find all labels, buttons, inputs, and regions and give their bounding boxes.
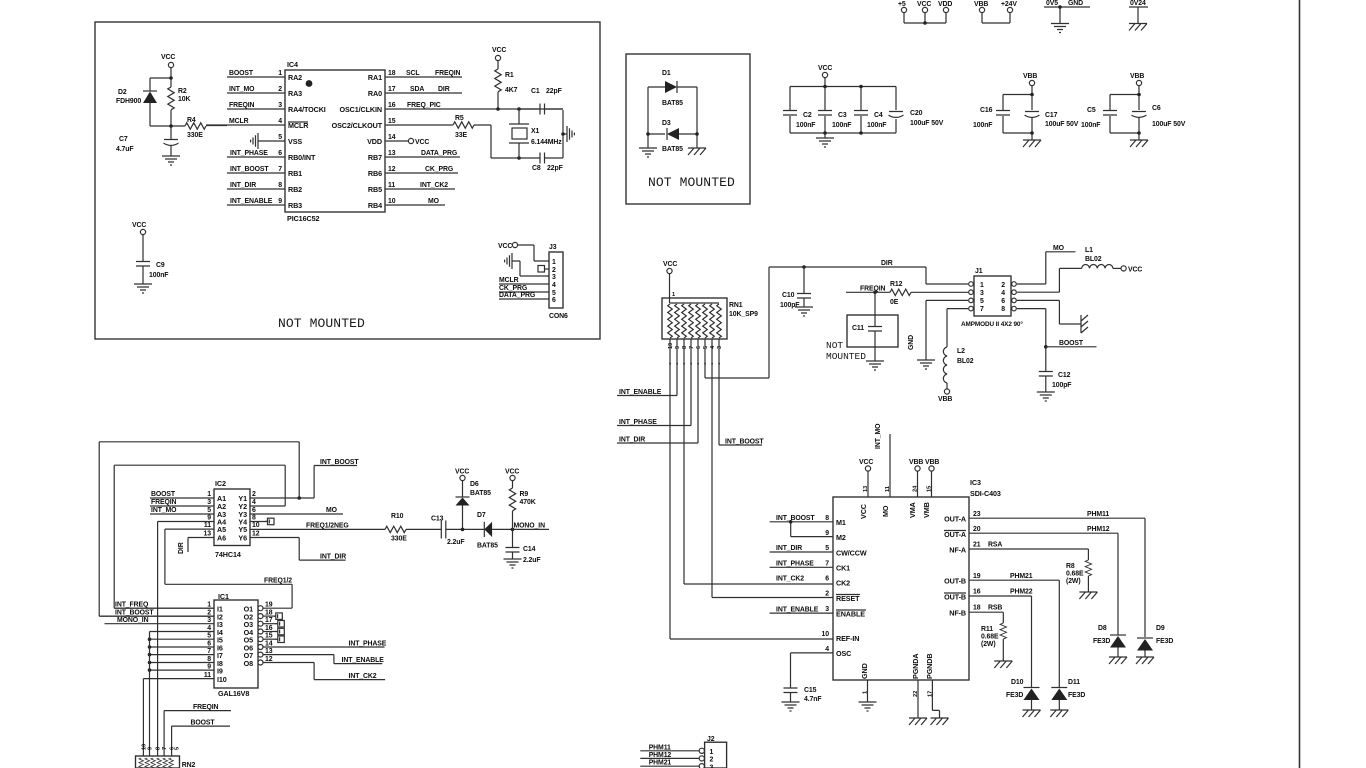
svg-text:8: 8 xyxy=(1001,306,1005,313)
svg-text:470K: 470K xyxy=(520,499,536,506)
svg-text:RA0: RA0 xyxy=(368,89,382,98)
svg-text:VMB: VMB xyxy=(922,502,931,518)
svg-text:12: 12 xyxy=(388,166,396,173)
svg-text:INT_BOOST: INT_BOOST xyxy=(725,439,764,446)
svg-text:IC4: IC4 xyxy=(287,60,298,69)
svg-text:M1: M1 xyxy=(836,518,846,527)
svg-text:O8: O8 xyxy=(244,659,253,668)
svg-text:12: 12 xyxy=(252,531,260,538)
svg-text:RA3: RA3 xyxy=(288,89,302,98)
svg-text:R5: R5 xyxy=(455,115,464,122)
svg-text:2: 2 xyxy=(825,591,829,598)
svg-text:GAL16V8: GAL16V8 xyxy=(218,689,249,698)
svg-text:GND: GND xyxy=(908,335,915,350)
svg-text:BOOST: BOOST xyxy=(151,491,176,498)
svg-text:BAT85: BAT85 xyxy=(662,100,683,107)
svg-text:7: 7 xyxy=(278,166,282,173)
svg-text:RA2: RA2 xyxy=(288,73,302,82)
svg-text:FE3D: FE3D xyxy=(1068,692,1085,699)
svg-text:D10: D10 xyxy=(1011,679,1024,686)
svg-text:C8: C8 xyxy=(532,165,541,172)
svg-text:OUT-B: OUT-B xyxy=(944,593,966,602)
svg-text:0.68E: 0.68E xyxy=(981,634,999,641)
svg-text:RSA: RSA xyxy=(988,542,1002,549)
svg-text:3: 3 xyxy=(825,606,829,613)
svg-text:BL02: BL02 xyxy=(957,358,974,365)
svg-text:VCC: VCC xyxy=(859,504,868,519)
svg-text:RESET: RESET xyxy=(836,594,860,603)
svg-text:VBB: VBB xyxy=(909,459,923,466)
svg-text:13: 13 xyxy=(265,648,273,655)
svg-text:C10: C10 xyxy=(782,292,795,299)
svg-text:100nF: 100nF xyxy=(832,122,851,129)
svg-text:4.7uF: 4.7uF xyxy=(116,146,134,153)
svg-text:0V5: 0V5 xyxy=(1046,0,1058,7)
svg-text:22pF: 22pF xyxy=(546,88,562,95)
svg-text:MO: MO xyxy=(1053,245,1065,252)
svg-text:INT_DIR: INT_DIR xyxy=(230,182,256,189)
svg-text:MO: MO xyxy=(326,507,338,514)
svg-text:MONO_IN: MONO_IN xyxy=(117,617,149,624)
svg-text:19: 19 xyxy=(973,573,981,580)
svg-text:8: 8 xyxy=(207,656,211,663)
svg-text:5: 5 xyxy=(552,290,556,297)
svg-text:6: 6 xyxy=(825,576,829,583)
svg-text:VCC: VCC xyxy=(455,469,469,476)
svg-text:FREQIN: FREQIN xyxy=(860,286,886,293)
svg-text:100uF 50V: 100uF 50V xyxy=(910,120,944,127)
svg-text:DIR: DIR xyxy=(438,86,450,93)
svg-text:330E: 330E xyxy=(187,132,203,139)
svg-text:15: 15 xyxy=(388,118,396,125)
svg-text:9: 9 xyxy=(825,530,829,537)
svg-text:4K7: 4K7 xyxy=(505,87,518,94)
svg-text:VCC: VCC xyxy=(498,243,512,250)
svg-text:10: 10 xyxy=(822,631,830,638)
svg-text:33E: 33E xyxy=(455,132,467,139)
svg-text:1: 1 xyxy=(672,292,675,298)
svg-text:5: 5 xyxy=(175,747,181,750)
svg-text:9: 9 xyxy=(207,515,211,522)
svg-text:RB6: RB6 xyxy=(368,169,382,178)
svg-text:VDD: VDD xyxy=(367,137,382,146)
svg-text:INT_ENABLE: INT_ENABLE xyxy=(230,198,273,205)
svg-text:6.144MHz: 6.144MHz xyxy=(531,139,562,146)
svg-text:INT_BOOST: INT_BOOST xyxy=(115,610,154,617)
svg-text:330E: 330E xyxy=(391,536,407,543)
svg-text:C9: C9 xyxy=(156,262,165,269)
svg-text:D2: D2 xyxy=(118,89,127,96)
svg-text:(2W): (2W) xyxy=(1066,578,1081,585)
svg-text:11: 11 xyxy=(885,486,891,492)
svg-text:INT_DIR: INT_DIR xyxy=(776,545,802,552)
svg-text:VSS: VSS xyxy=(288,137,302,146)
svg-text:VBB: VBB xyxy=(938,396,952,403)
svg-text:21: 21 xyxy=(973,542,981,549)
svg-text:MO: MO xyxy=(428,198,440,205)
svg-text:I10: I10 xyxy=(217,675,227,684)
svg-text:INT_PHASE: INT_PHASE xyxy=(619,419,657,426)
svg-text:4: 4 xyxy=(278,118,282,125)
svg-text:DATA_PRG: DATA_PRG xyxy=(421,150,457,157)
svg-text:RB0/INT: RB0/INT xyxy=(288,153,316,162)
svg-text:17: 17 xyxy=(388,86,396,93)
svg-text:10K_SP9: 10K_SP9 xyxy=(729,311,758,318)
svg-text:1: 1 xyxy=(207,602,211,609)
svg-text:CK1: CK1 xyxy=(836,564,850,573)
svg-text:22: 22 xyxy=(913,691,919,697)
svg-text:13: 13 xyxy=(863,486,869,492)
svg-text:74HC14: 74HC14 xyxy=(215,550,241,559)
svg-text:INT_ENABLE: INT_ENABLE xyxy=(342,657,385,664)
svg-text:C16: C16 xyxy=(980,107,993,114)
svg-text:FREQIN: FREQIN xyxy=(193,704,219,711)
svg-text:2: 2 xyxy=(278,86,282,93)
svg-text:PGNDA: PGNDA xyxy=(911,654,920,679)
svg-text:RA4/TOCKI: RA4/TOCKI xyxy=(288,105,326,114)
svg-text:8: 8 xyxy=(252,515,256,522)
svg-text:J2: J2 xyxy=(707,736,715,743)
svg-text:(2W): (2W) xyxy=(981,641,996,648)
svg-text:1: 1 xyxy=(207,491,211,498)
svg-text:2: 2 xyxy=(207,610,211,617)
svg-text:17: 17 xyxy=(928,691,934,697)
svg-text:23: 23 xyxy=(973,511,981,518)
svg-text:R12: R12 xyxy=(890,281,903,288)
svg-text:C7: C7 xyxy=(119,136,128,143)
svg-text:2: 2 xyxy=(552,267,556,274)
svg-text:8: 8 xyxy=(825,515,829,522)
svg-text:DIR: DIR xyxy=(881,260,893,267)
svg-text:C3: C3 xyxy=(838,112,847,119)
svg-text:CK2: CK2 xyxy=(836,579,850,588)
svg-text:PHM11: PHM11 xyxy=(649,744,671,751)
svg-text:MCLR: MCLR xyxy=(499,277,519,284)
svg-text:GND: GND xyxy=(860,663,869,679)
svg-text:4: 4 xyxy=(825,646,829,653)
svg-text:1: 1 xyxy=(980,282,984,289)
svg-text:11: 11 xyxy=(204,672,211,679)
svg-text:100nF: 100nF xyxy=(867,122,886,129)
svg-text:FREQIN: FREQIN xyxy=(229,102,255,109)
svg-text:D3: D3 xyxy=(662,120,671,127)
svg-text:PHM12: PHM12 xyxy=(1087,526,1110,533)
svg-text:2: 2 xyxy=(252,491,256,498)
svg-text:FREQIN: FREQIN xyxy=(151,499,177,506)
svg-text:C4: C4 xyxy=(874,112,883,119)
svg-text:VCC: VCC xyxy=(663,261,677,268)
svg-text:0.68E: 0.68E xyxy=(1066,571,1084,578)
svg-text:C5: C5 xyxy=(1087,107,1096,114)
svg-text:13: 13 xyxy=(204,531,212,538)
svg-text:FREQ_PIC: FREQ_PIC xyxy=(407,102,441,109)
svg-text:22pF: 22pF xyxy=(547,165,563,172)
svg-text:SDA: SDA xyxy=(410,86,424,93)
svg-text:D8: D8 xyxy=(1098,625,1107,632)
svg-text:IC2: IC2 xyxy=(215,479,226,488)
svg-text:OSC1/CLKIN: OSC1/CLKIN xyxy=(339,105,382,114)
svg-text:DATA_PRG: DATA_PRG xyxy=(499,292,535,299)
svg-text:4: 4 xyxy=(252,499,256,506)
svg-text:5: 5 xyxy=(703,346,709,349)
svg-text:DIR: DIR xyxy=(178,542,185,554)
svg-text:C12: C12 xyxy=(1058,372,1071,379)
svg-text:MO: MO xyxy=(881,505,890,517)
svg-text:INT_CK2: INT_CK2 xyxy=(349,673,377,680)
svg-text:L2: L2 xyxy=(957,348,965,355)
svg-text:17: 17 xyxy=(265,617,273,624)
svg-text:INT_CK2: INT_CK2 xyxy=(776,576,804,583)
svg-text:3: 3 xyxy=(278,102,282,109)
svg-text:ENABLE: ENABLE xyxy=(836,610,865,619)
svg-text:5: 5 xyxy=(980,298,984,305)
svg-text:REF-IN: REF-IN xyxy=(836,634,859,643)
svg-text:IC1: IC1 xyxy=(218,592,229,601)
svg-text:OUT-A: OUT-A xyxy=(944,530,966,539)
svg-text:J3: J3 xyxy=(549,244,557,251)
svg-text:1: 1 xyxy=(863,691,869,694)
svg-text:D1: D1 xyxy=(662,70,671,77)
svg-text:RB5: RB5 xyxy=(368,185,382,194)
svg-text:OSC2/CLKOUT: OSC2/CLKOUT xyxy=(332,121,383,130)
svg-text:8: 8 xyxy=(156,747,162,750)
svg-text:NF-A: NF-A xyxy=(949,546,966,555)
svg-text:5: 5 xyxy=(207,507,211,514)
svg-text:NOT MOUNTED: NOT MOUNTED xyxy=(278,316,365,331)
svg-text:100pF: 100pF xyxy=(1052,382,1071,389)
svg-text:4.7nF: 4.7nF xyxy=(804,696,822,703)
svg-text:6: 6 xyxy=(278,150,282,157)
svg-text:SCL: SCL xyxy=(406,70,419,77)
svg-text:FREQ1/2: FREQ1/2 xyxy=(264,578,292,585)
svg-text:7: 7 xyxy=(825,561,829,568)
svg-text:10K: 10K xyxy=(178,96,190,103)
svg-text:16: 16 xyxy=(388,102,396,109)
svg-text:FREQIN: FREQIN xyxy=(435,70,461,77)
svg-text:INT_BOOST: INT_BOOST xyxy=(320,459,359,466)
svg-text:C6: C6 xyxy=(1152,105,1161,112)
svg-text:BL02: BL02 xyxy=(1085,256,1102,263)
svg-text:RB7: RB7 xyxy=(368,153,382,162)
svg-text:6: 6 xyxy=(696,346,702,349)
svg-text:7: 7 xyxy=(689,346,695,349)
svg-text:VMA: VMA xyxy=(908,502,917,518)
svg-text:CK_PRG: CK_PRG xyxy=(499,285,527,292)
svg-text:L1: L1 xyxy=(1085,247,1093,254)
svg-text:INT_MO: INT_MO xyxy=(875,423,882,449)
svg-text:INT_PHASE: INT_PHASE xyxy=(230,150,268,157)
svg-text:C11: C11 xyxy=(852,325,864,332)
svg-text:6: 6 xyxy=(207,641,211,648)
svg-text:1: 1 xyxy=(710,749,714,756)
svg-text:9: 9 xyxy=(148,747,154,750)
svg-text:3: 3 xyxy=(207,617,211,624)
svg-text:4: 4 xyxy=(1001,290,1005,297)
svg-text:VCC: VCC xyxy=(415,139,429,146)
svg-text:BOOST: BOOST xyxy=(229,70,254,77)
svg-text:5: 5 xyxy=(825,545,829,552)
svg-text:INT_DIR: INT_DIR xyxy=(619,437,645,444)
svg-text:3: 3 xyxy=(207,499,211,506)
svg-text:0V24: 0V24 xyxy=(1130,0,1146,7)
svg-text:RN2: RN2 xyxy=(182,762,196,768)
svg-text:VCC: VCC xyxy=(818,65,832,72)
svg-text:NF-B: NF-B xyxy=(949,609,966,618)
svg-text:C1: C1 xyxy=(531,88,540,95)
svg-text:INT_PHASE: INT_PHASE xyxy=(349,641,387,648)
svg-text:100nF: 100nF xyxy=(149,272,168,279)
svg-text:VCC: VCC xyxy=(132,222,146,229)
svg-text:INT_ENABLE: INT_ENABLE xyxy=(776,607,819,614)
svg-text:R9: R9 xyxy=(520,491,529,498)
svg-text:FDH900: FDH900 xyxy=(116,98,141,105)
svg-text:RB1: RB1 xyxy=(288,169,302,178)
svg-text:RN1: RN1 xyxy=(729,302,743,309)
svg-text:VCC: VCC xyxy=(161,54,175,61)
svg-text:VCC: VCC xyxy=(505,469,519,476)
svg-text:PGNDB: PGNDB xyxy=(925,654,934,679)
svg-text:RB4: RB4 xyxy=(368,201,382,210)
svg-text:VBB: VBB xyxy=(1130,73,1144,80)
svg-text:PHM22: PHM22 xyxy=(1010,589,1033,596)
svg-text:BOOST: BOOST xyxy=(191,720,216,727)
svg-text:7: 7 xyxy=(162,747,168,750)
svg-text:7: 7 xyxy=(207,648,211,655)
svg-text:9: 9 xyxy=(675,346,681,349)
svg-text:M2: M2 xyxy=(836,533,846,542)
svg-text:OUT-A: OUT-A xyxy=(944,515,966,524)
svg-text:IC3: IC3 xyxy=(970,478,981,487)
svg-text:D9: D9 xyxy=(1156,625,1165,632)
svg-text:INT_MO: INT_MO xyxy=(229,86,255,93)
svg-text:10: 10 xyxy=(252,522,260,529)
svg-text:2: 2 xyxy=(1001,282,1005,289)
svg-text:VBB: VBB xyxy=(925,459,939,466)
svg-text:C17: C17 xyxy=(1045,112,1058,119)
svg-text:INT_CK2: INT_CK2 xyxy=(420,182,448,189)
svg-text:R2: R2 xyxy=(178,88,187,95)
svg-text:CON6: CON6 xyxy=(549,313,568,320)
svg-text:VCC: VCC xyxy=(859,459,873,466)
svg-text:16: 16 xyxy=(973,589,981,596)
svg-text:VCC: VCC xyxy=(492,47,506,54)
svg-text:8: 8 xyxy=(682,346,688,349)
svg-text:C13: C13 xyxy=(431,516,444,523)
svg-text:MCLR: MCLR xyxy=(229,118,249,125)
svg-text:PHM12: PHM12 xyxy=(649,752,672,759)
svg-text:INT_ENABLE: INT_ENABLE xyxy=(619,389,662,396)
svg-text:2.2uF: 2.2uF xyxy=(523,557,541,564)
svg-text:MOUNTED: MOUNTED xyxy=(826,351,866,362)
svg-text:4: 4 xyxy=(552,282,556,289)
svg-text:OUT-B: OUT-B xyxy=(944,577,966,586)
svg-text:X1: X1 xyxy=(531,128,539,135)
svg-text:RB2: RB2 xyxy=(288,185,302,194)
svg-text:BOOST: BOOST xyxy=(1059,340,1084,347)
svg-text:INT_MO: INT_MO xyxy=(151,507,177,514)
svg-text:FE3D: FE3D xyxy=(1093,638,1110,645)
svg-text:D11: D11 xyxy=(1068,679,1080,686)
svg-text:D6: D6 xyxy=(470,481,479,488)
svg-text:C20: C20 xyxy=(910,110,923,117)
svg-text:NOT MOUNTED: NOT MOUNTED xyxy=(648,175,735,190)
svg-text:GND: GND xyxy=(1068,0,1083,7)
svg-text:R4: R4 xyxy=(187,117,196,124)
svg-text:CK_PRG: CK_PRG xyxy=(425,166,453,173)
svg-text:INT_BOOST: INT_BOOST xyxy=(776,515,815,522)
svg-text:14: 14 xyxy=(388,134,396,141)
svg-text:18: 18 xyxy=(265,610,273,617)
svg-text:18: 18 xyxy=(388,70,396,77)
svg-text:6: 6 xyxy=(552,297,556,304)
svg-text:R11: R11 xyxy=(981,626,993,633)
svg-text:11: 11 xyxy=(388,182,395,189)
svg-text:5: 5 xyxy=(278,134,282,141)
svg-text:1: 1 xyxy=(552,259,556,266)
svg-text:R8: R8 xyxy=(1066,563,1075,570)
svg-text:INT_FREQ: INT_FREQ xyxy=(115,602,149,609)
svg-text:J1: J1 xyxy=(975,268,983,275)
svg-text:MONO_IN: MONO_IN xyxy=(514,523,546,530)
svg-text:R10: R10 xyxy=(391,513,404,520)
svg-text:11: 11 xyxy=(204,522,211,529)
svg-text:C14: C14 xyxy=(523,546,536,553)
svg-text:13: 13 xyxy=(388,150,396,157)
svg-text:INT_PHASE: INT_PHASE xyxy=(776,561,814,568)
svg-text:18: 18 xyxy=(973,605,981,612)
svg-text:4: 4 xyxy=(207,625,211,632)
svg-text:100uF 50V: 100uF 50V xyxy=(1045,121,1079,128)
svg-text:FE3D: FE3D xyxy=(1006,692,1023,699)
svg-text:AMPMODU II 4X2 90°: AMPMODU II 4X2 90° xyxy=(961,320,1023,328)
svg-text:100pF: 100pF xyxy=(780,302,799,309)
svg-text:RSB: RSB xyxy=(988,605,1002,612)
svg-text:VBB: VBB xyxy=(1023,73,1037,80)
svg-text:0E: 0E xyxy=(890,299,899,306)
svg-text:100uF 50V: 100uF 50V xyxy=(1152,121,1186,128)
svg-text:19: 19 xyxy=(265,602,273,609)
svg-text:PHM11: PHM11 xyxy=(1087,511,1109,518)
svg-text:24: 24 xyxy=(913,485,919,492)
svg-text:100nF: 100nF xyxy=(1081,122,1100,129)
svg-text:6: 6 xyxy=(252,507,256,514)
svg-text:FREQ1/2NEG: FREQ1/2NEG xyxy=(306,523,349,530)
svg-text:INT_BOOST: INT_BOOST xyxy=(230,166,269,173)
svg-text:FE3D: FE3D xyxy=(1156,638,1173,645)
svg-text:PHM21: PHM21 xyxy=(1010,573,1033,580)
svg-text:100nF: 100nF xyxy=(796,122,815,129)
svg-text:2: 2 xyxy=(710,757,714,764)
svg-text:R1: R1 xyxy=(505,72,514,79)
svg-text:1: 1 xyxy=(278,70,282,77)
svg-text:6: 6 xyxy=(1001,298,1005,305)
svg-text:100nF: 100nF xyxy=(973,122,992,129)
svg-text:D7: D7 xyxy=(477,512,486,519)
svg-text:RB3: RB3 xyxy=(288,201,302,210)
svg-text:C2: C2 xyxy=(803,112,812,119)
svg-text:2.2uF: 2.2uF xyxy=(447,539,465,546)
svg-text:15: 15 xyxy=(927,486,933,492)
svg-text:PIC16C52: PIC16C52 xyxy=(287,214,319,223)
svg-text:5: 5 xyxy=(207,633,211,640)
svg-text:7: 7 xyxy=(980,306,984,313)
svg-text:A6: A6 xyxy=(217,534,226,543)
svg-text:10: 10 xyxy=(668,343,674,349)
svg-text:CW/CCW: CW/CCW xyxy=(836,549,867,558)
svg-text:10: 10 xyxy=(388,198,396,205)
svg-text:15: 15 xyxy=(265,633,273,640)
svg-text:PHM21: PHM21 xyxy=(649,760,672,767)
